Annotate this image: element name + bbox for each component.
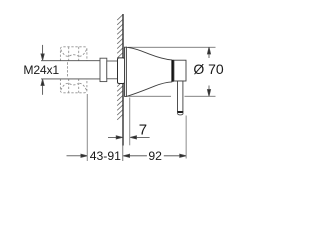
handle hub: [174, 60, 186, 81]
escutcheon base plate: [125, 47, 127, 96]
43-91 extension line (from nut corner): [86, 94, 88, 161]
lower hex nut (hidden/dashed): [60, 79, 87, 93]
wall dimension extension line: [122, 146, 124, 162]
svg-text:92: 92: [148, 149, 162, 163]
lever tip cap: [177, 113, 183, 115]
7 dimension extension line: [129, 98, 131, 146]
svg-text:43-91: 43-91: [90, 149, 121, 163]
lever shaft: [178, 81, 183, 112]
92 extension line (hub face): [185, 116, 187, 159]
M24x1 leader arrows: [41, 45, 44, 95]
svg-text:M24x1: M24x1: [23, 63, 59, 77]
upper hex nut (hidden/dashed): [60, 47, 87, 61]
svg-text:7: 7: [139, 121, 147, 138]
wall hatching: [117, 15, 123, 120]
tube section between collar and wall: [107, 61, 118, 79]
O70 top extension line: [128, 46, 216, 48]
92 dimension line: [123, 154, 186, 157]
wall sleeve flange: [118, 58, 125, 84]
O70 dimension line with arrows: [207, 47, 210, 96]
svg-text:Ø 70: Ø 70: [193, 61, 224, 77]
collar ring: [100, 58, 107, 81]
valve body tube (threaded shank): [41, 61, 100, 79]
dashed hole centerline on shank: [66, 62, 68, 77]
7 dimension: left arrow: [108, 136, 150, 139]
O70 bottom extension line: [127, 95, 171, 97]
cone end face (thick): [172, 60, 174, 82]
escutcheon cone: [126, 47, 171, 96]
43-91 dimension line: [67, 154, 88, 157]
lever tip rim: [177, 111, 184, 113]
wall line: [122, 14, 124, 146]
